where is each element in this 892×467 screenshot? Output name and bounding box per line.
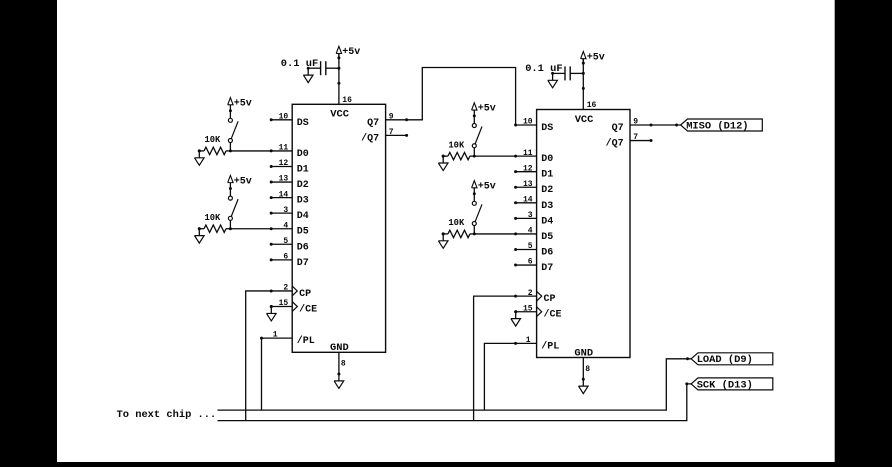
wire switch SW4 to data line [473,226,475,234]
wire U1 CP to SCK bus [246,291,272,421]
power +5v for SW4 [472,181,496,196]
svg-text:+5v: +5v [478,104,496,115]
svg-text:D0: D0 [297,149,309,160]
svg-text:5: 5 [528,242,533,251]
ground below R1 [195,149,205,165]
wire U1 Q7 to U2 DS (serial link) [407,68,516,126]
svg-text:10K: 10K [205,135,222,145]
svg-text:CP: CP [299,289,311,300]
svg-text:/CE: /CE [299,304,317,316]
wire SCK bus (to next chip) [218,384,692,421]
svg-text:1: 1 [526,336,531,345]
svg-text:+5v: +5v [234,176,252,187]
svg-text:6: 6 [283,253,288,262]
svg-text:+5v: +5v [342,47,360,58]
switch SW4 [472,201,482,225]
svg-text:16: 16 [587,101,597,110]
wire U2 /PL to LOAD bus [484,343,515,410]
svg-text:0.1 uF: 0.1 uF [281,58,318,70]
svg-text:D7: D7 [297,258,309,269]
svg-text:15: 15 [523,304,533,313]
svg-text:+5v: +5v [587,52,605,63]
ground U2 /CE [511,310,521,326]
svg-text:D4: D4 [541,216,553,227]
U2 pin 5 (D6) [514,242,553,258]
svg-text:D4: D4 [297,211,309,222]
net tag SCK (D13) [691,378,773,391]
wire +5v to VCC pin of U1 [337,54,340,104]
svg-text:2: 2 [283,284,288,293]
U2 pin 6 (D7) [514,258,553,274]
wire switch SW3 to data line [473,148,475,156]
U2 pin 8 (GND) [583,358,590,380]
wire +5v to VCC pin of U2 [582,59,585,109]
U2 pin 14 (D3) [514,196,553,212]
junction node SW4/R4 [473,232,476,235]
switch SW2 [228,196,238,220]
U2 pin 15 (/CE) [514,304,561,320]
svg-text:9: 9 [389,112,394,121]
svg-text:10K: 10K [205,213,222,223]
ground below C1 [303,67,313,83]
wire U1 /PL to LOAD bus [261,338,263,410]
svg-text:/Q7: /Q7 [606,138,624,150]
wire SW4 node to U2 D5 [474,233,515,235]
wire +5v to switch SW2 [229,188,231,196]
svg-text:10: 10 [523,118,533,127]
svg-text:D3: D3 [297,196,309,207]
svg-text:D0: D0 [541,154,553,165]
U1 pin 6 (D7) [270,253,309,269]
junction node SW2/R2 [229,227,232,230]
svg-text:D3: D3 [541,201,553,212]
wire switch SW2 to data line [229,220,231,228]
capacitor C2 0.1 uF [553,66,584,80]
svg-text:/Q7: /Q7 [361,132,379,144]
svg-text:10K: 10K [448,140,465,150]
power +5v for SW2 [228,175,252,190]
U2 pin 11 (D0) [514,149,553,165]
U2 pin 2 (CP) [514,289,555,305]
svg-text:+5v: +5v [234,99,252,110]
svg-text:To next chip ...: To next chip ... [117,409,217,421]
svg-text:/PL: /PL [297,335,315,347]
svg-text:9: 9 [633,118,638,127]
net tag MISO (D12) [681,119,763,132]
U1 pin 2 (CP) [270,284,311,300]
wire SW2 node to U1 D5 [230,228,271,230]
junction node cap C1 tap [337,67,340,70]
ground below R3 [438,155,448,171]
junction node SW1/R1 [229,149,232,152]
svg-text:D6: D6 [297,242,309,253]
svg-text:/CE: /CE [544,309,562,321]
svg-text:14: 14 [523,196,533,205]
capacitor C1 0.1 uF [308,61,339,75]
wire SW1 node to U1 D0 [230,150,271,152]
power +5v for C1 [336,46,360,59]
svg-text:10K: 10K [448,218,465,228]
wire switch SW1 to data line [229,143,231,151]
U2 pin 13 (D2) [514,180,553,196]
U1 pin 8 (GND) [339,352,346,374]
svg-text:D2: D2 [297,180,309,191]
U2 pin 12 (D1) [514,164,553,180]
svg-text:/PL: /PL [541,340,559,352]
svg-text:VCC: VCC [330,109,349,121]
U2 pin 9 (Q7) [612,118,653,134]
U2 pin 4 (D5) [514,227,553,243]
U1 pin 11 (D0) [270,144,309,160]
svg-text:1: 1 [273,331,278,340]
svg-text:3: 3 [283,206,288,215]
ground U1 /CE [267,305,277,321]
svg-text:16: 16 [342,96,352,105]
U2 pin 3 (D4) [514,211,553,227]
ground below R4 [438,232,448,248]
junction node SW3/R3 [473,155,476,158]
wire SW3 node to U2 D0 [474,155,515,157]
svg-text:8: 8 [341,360,346,369]
wire +5v to switch SW3 [473,116,475,124]
U2 pin 1 (/PL) [514,336,559,353]
svg-text:6: 6 [528,258,533,267]
wire U2 CP to SCK bus [474,296,516,420]
svg-text:12: 12 [523,164,533,173]
svg-text:D5: D5 [297,227,309,238]
svg-text:D6: D6 [541,247,553,258]
svg-text:14: 14 [279,190,289,199]
svg-text:Q7: Q7 [612,123,624,134]
junction node at MISO tag [675,124,678,127]
wire +5v to switch SW1 [229,111,231,119]
svg-text:MISO (D12): MISO (D12) [686,120,748,132]
ground below R2 [195,227,205,243]
svg-text:SCK (D13): SCK (D13) [697,379,753,391]
svg-text:D1: D1 [541,170,553,181]
wire U2 Q7 to MISO tag [651,124,681,126]
svg-text:5: 5 [283,237,288,246]
svg-text:VCC: VCC [575,114,594,126]
svg-text:13: 13 [523,180,533,189]
svg-text:4: 4 [283,221,288,230]
U1 pin 10 (DS) [270,113,309,129]
resistor R1 10K [198,135,231,155]
junction node at SCK tag [685,382,688,385]
svg-text:8: 8 [585,365,590,374]
svg-text:CP: CP [544,294,556,305]
IC U1 74HC165 body [292,104,385,352]
svg-text:DS: DS [541,123,553,134]
svg-text:D2: D2 [541,185,553,196]
svg-text:11: 11 [523,149,533,158]
U1 pin 15 (/CE) [270,299,317,315]
power +5v for SW3 [472,103,496,118]
resistor R3 10K [442,140,475,160]
U1 pin 14 (D3) [270,190,309,206]
power +5v for SW1 [228,98,252,113]
svg-text:13: 13 [279,175,289,184]
svg-text:10: 10 [279,113,289,122]
IC U2 74HC165 body [537,110,630,358]
ground below C2 [548,72,558,88]
svg-text:4: 4 [528,227,533,236]
net tag LOAD (D9) [691,353,773,366]
svg-text:7: 7 [633,133,638,142]
wire +5v to switch SW4 [473,194,475,202]
resistor R2 10K [198,213,231,233]
U1 pin 12 (D1) [270,159,309,175]
U1 pin 9 (Q7) [367,112,408,128]
switch SW3 [472,124,482,148]
svg-text:11: 11 [279,144,289,153]
svg-text:+5v: +5v [478,182,496,193]
power +5v for C2 [581,52,605,65]
svg-text:7: 7 [389,128,394,137]
U2 pin 7 (/Q7) [606,133,653,149]
svg-text:Q7: Q7 [367,118,379,129]
svg-text:DS: DS [297,118,309,129]
wire LOAD bus (to next chip) [218,359,692,410]
svg-text:3: 3 [528,211,533,220]
junction node at LOAD tag [686,357,689,360]
svg-text:0.1 uF: 0.1 uF [525,63,562,75]
svg-text:15: 15 [279,299,289,308]
svg-text:D7: D7 [541,263,553,274]
junction node cap C2 tap [582,72,585,75]
U1 pin 1 (/PL) [260,331,315,348]
ground U1 GND pin [334,373,344,389]
U1 pin 5 (D6) [270,237,309,253]
resistor R4 10K [442,218,475,238]
svg-text:LOAD (D9): LOAD (D9) [697,354,753,366]
U2 pin 10 (DS) [514,118,553,134]
ground U2 GND pin [579,378,589,394]
U1 pin 4 (D5) [270,221,309,237]
U1 pin 7 (/Q7) [361,128,408,144]
svg-text:D5: D5 [541,232,553,243]
svg-text:D1: D1 [297,164,309,175]
U1 pin 3 (D4) [270,206,309,222]
svg-text:2: 2 [528,289,533,298]
switch SW1 [228,118,238,142]
svg-text:12: 12 [279,159,289,168]
U1 pin 13 (D2) [270,175,309,191]
